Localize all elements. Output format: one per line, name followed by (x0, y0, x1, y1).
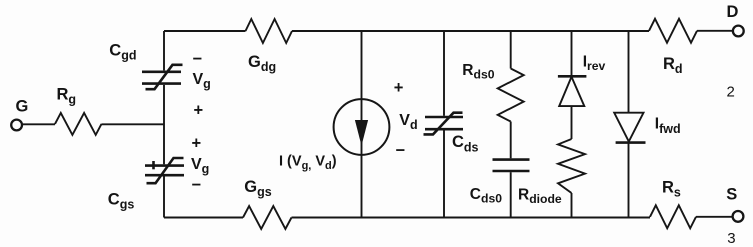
svg-text:Rg: Rg (57, 86, 77, 107)
wire top rail left segment (164, 30, 246, 32)
svg-text:Ifwd: Ifwd (655, 115, 681, 136)
resistor G_dg (246, 19, 293, 43)
svg-text:S: S (726, 185, 737, 203)
svg-text:Vd: Vd (399, 112, 417, 132)
svg-text:−: − (193, 50, 203, 68)
wire bottom rail right segment (292, 217, 651, 219)
resistor R_s (650, 205, 696, 228)
resistor R_ds0 (498, 69, 524, 122)
wire bottom rail left segment (164, 217, 243, 219)
wire C_gs to bottom rail (163, 176, 165, 217)
wire top rail down to C_gd (163, 31, 165, 70)
svg-text:I (Vg, Vd): I (Vg, Vd) (279, 154, 337, 173)
svg-text:G: G (16, 98, 29, 116)
wire C_ds to bottom rail (443, 130, 445, 217)
svg-text:Rs: Rs (662, 178, 681, 199)
terminal D circle (733, 26, 744, 37)
capacitor C_ds0 (493, 158, 530, 161)
diode D_rev (pointing up) (558, 75, 587, 78)
terminal S circle (733, 211, 744, 222)
svg-text:2: 2 (727, 83, 735, 100)
wire top rail down to R_ds0 (510, 31, 512, 69)
svg-text:Cds0: Cds0 (470, 186, 502, 206)
diode D_fwd (pointing down) (614, 113, 643, 142)
svg-text:+: + (192, 134, 202, 152)
svg-text:−: − (192, 176, 202, 194)
wire top rail right segment (292, 30, 649, 32)
wire C_gd to gate node to C_gs (163, 85, 165, 164)
resistor G_gs (243, 206, 292, 229)
wire R_g to gate node (102, 123, 165, 125)
wire top rail down through current source to bottom rail (361, 31, 363, 218)
svg-text:Gdg: Gdg (248, 53, 276, 74)
svg-text:Ggs: Ggs (244, 178, 271, 199)
svg-text:Vg: Vg (191, 156, 209, 176)
wire G terminal to R_g (23, 123, 56, 125)
capacitor C_gs (variable, + mark) (145, 164, 184, 167)
svg-text:+: + (394, 79, 404, 97)
current source arrow (361, 99, 363, 155)
wire top rail down to C_ds (443, 31, 445, 116)
resistor R_g (55, 113, 102, 135)
svg-text:Cds: Cds (452, 133, 479, 154)
svg-text:Irev: Irev (583, 53, 606, 73)
svg-text:Rd: Rd (663, 55, 683, 76)
svg-text:Vg: Vg (193, 71, 211, 91)
resistor R_d (649, 19, 697, 43)
wire diode to bottom rail (628, 143, 630, 218)
svg-text:D: D (727, 3, 739, 21)
current source I(V_g,V_d) circle (334, 99, 390, 155)
svg-text:+: + (194, 101, 204, 119)
svg-text:Cgd: Cgd (109, 41, 136, 62)
wire R_d to D terminal (697, 30, 732, 32)
capacitor C_ds (variable) (425, 116, 463, 119)
wire top rail down to forward diode (628, 31, 630, 113)
svg-text:Rdiode: Rdiode (518, 187, 562, 207)
svg-text:−: − (396, 141, 406, 159)
resistor R_diode (558, 139, 585, 193)
terminal G circle (11, 120, 22, 131)
wire R_s to S terminal (696, 216, 732, 218)
capacitor C_gd (variable) (142, 71, 181, 74)
svg-text:Cgs: Cgs (108, 190, 135, 211)
wire R_diode to bottom rail (571, 193, 573, 218)
wire R_ds0 to C_ds0 (510, 122, 512, 159)
wire C_ds0 to bottom rail (510, 172, 512, 217)
svg-text:3: 3 (727, 230, 735, 247)
wire top rail down to reverse diode (571, 31, 573, 76)
svg-text:Rds0: Rds0 (462, 62, 494, 82)
wire diode to R_diode (571, 106, 573, 139)
